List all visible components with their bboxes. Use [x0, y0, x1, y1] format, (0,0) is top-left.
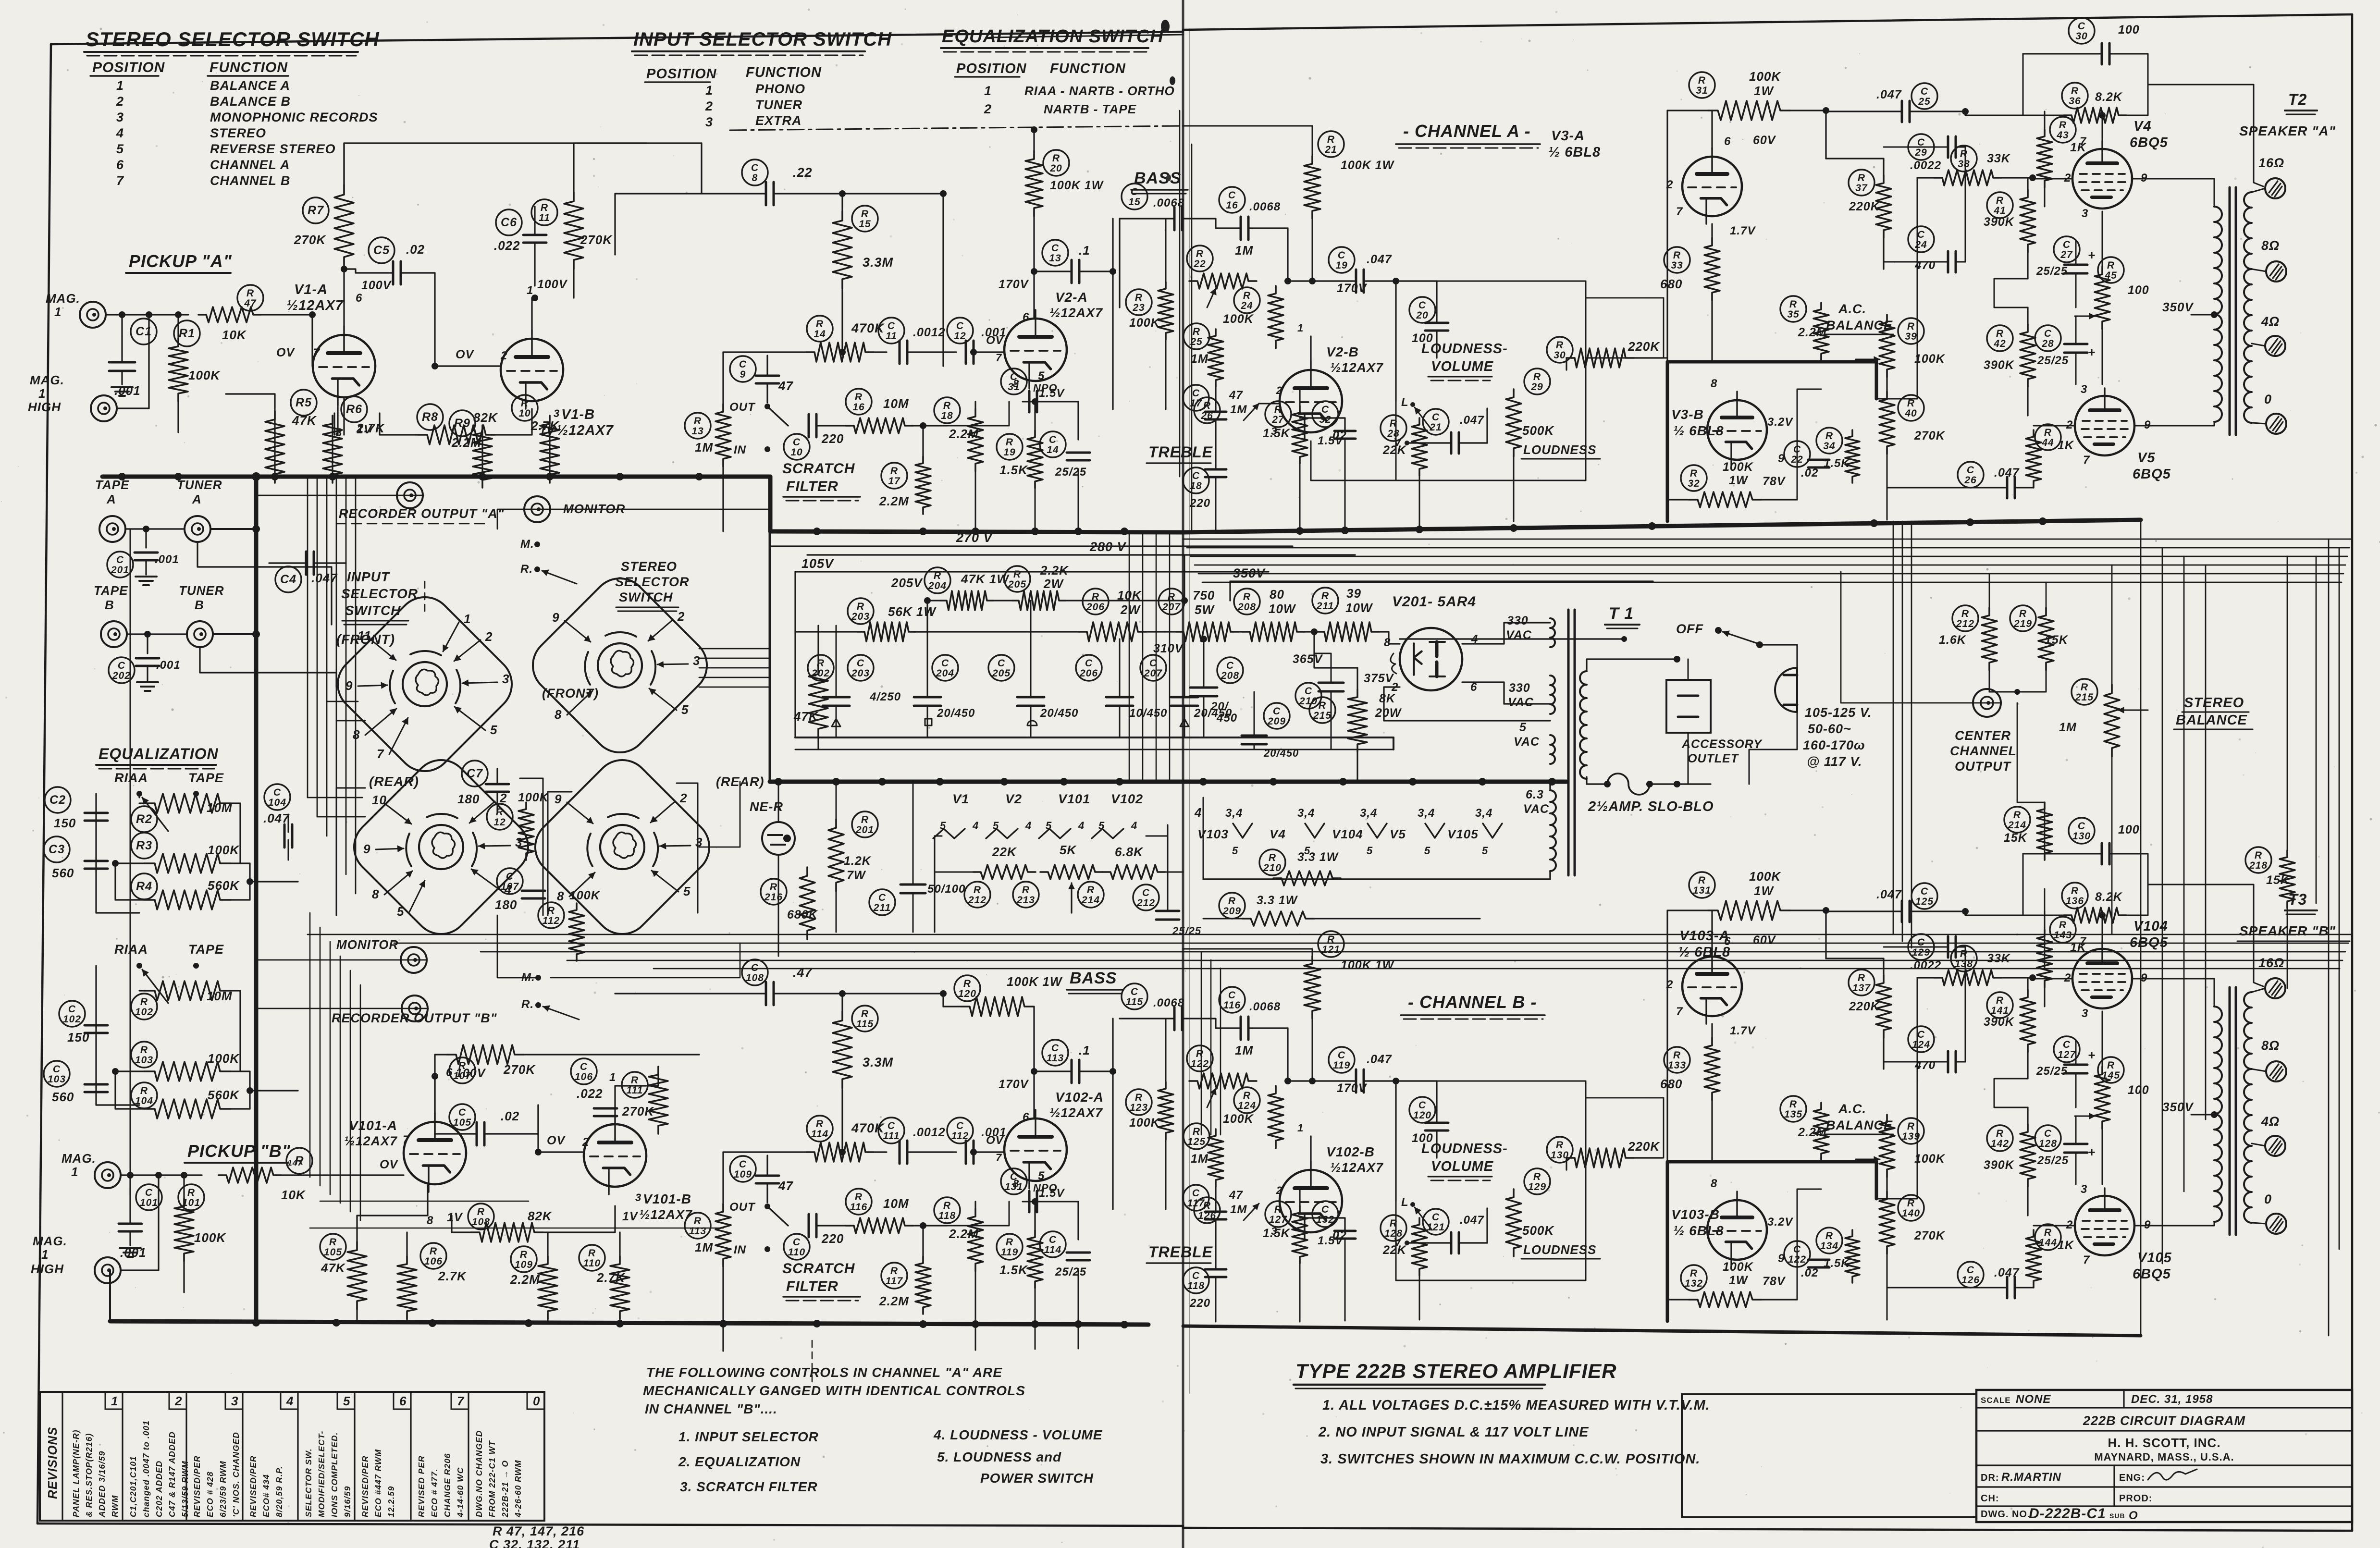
- svg-text:C: C: [68, 1004, 76, 1015]
- svg-text:C: C: [888, 320, 895, 332]
- svg-text:R: R: [1022, 885, 1030, 896]
- svg-text:115: 115: [1126, 996, 1143, 1007]
- resistor R130 220K: [1547, 1137, 1573, 1163]
- jack TAPE B: [101, 621, 127, 647]
- svg-text:V103-A: V103-A: [1679, 928, 1729, 944]
- revisions table frame: [40, 1392, 544, 1521]
- svg-text:160-170ω: 160-170ω: [1803, 738, 1865, 752]
- svg-text:CHANNEL B: CHANNEL B: [210, 173, 291, 188]
- svg-text:TAPE: TAPE: [188, 942, 224, 957]
- svg-text:132: 132: [1316, 1214, 1334, 1225]
- svg-text:5: 5: [116, 142, 124, 156]
- filter capacitor C205 20/450: [988, 655, 1014, 681]
- svg-text:100: 100: [2128, 283, 2149, 297]
- svg-text:8: 8: [1711, 377, 1717, 390]
- svg-text:C: C: [1967, 465, 1974, 476]
- svg-text:BALANCE: BALANCE: [2176, 713, 2247, 728]
- wire monitor jack to fold: [551, 509, 770, 510]
- svg-text:.0068: .0068: [1153, 996, 1184, 1009]
- svg-text:L: L: [1401, 1196, 1409, 1209]
- resistor R14 470K: [807, 316, 833, 342]
- heater wires lower: [934, 836, 936, 872]
- resistor R16 10M: [846, 389, 872, 415]
- resistor R215 8K 20W: [1309, 697, 1335, 723]
- svg-text:V103: V103: [1197, 827, 1229, 841]
- svg-text:105: 105: [324, 1247, 342, 1258]
- resistor R4 560K: [131, 873, 157, 899]
- svg-text:SELECTOR: SELECTOR: [615, 575, 690, 589]
- svg-text:R: R: [1193, 1126, 1200, 1137]
- plate wire V1-A up to R7: [343, 269, 345, 326]
- svg-text:100K: 100K: [1723, 460, 1754, 474]
- resistor R104 560K: [131, 1082, 157, 1108]
- svg-text:100K: 100K: [1914, 1152, 1946, 1166]
- svg-text:20/450: 20/450: [1040, 707, 1078, 720]
- svg-text:1W: 1W: [1729, 474, 1749, 487]
- svg-text:R: R: [1533, 371, 1541, 382]
- svg-text:IN: IN: [734, 443, 746, 456]
- svg-text:220: 220: [821, 1231, 844, 1246]
- tube V1-B half 12AX7: [501, 339, 563, 401]
- svg-text:1. INPUT SELECTOR: 1. INPUT SELECTOR: [678, 1429, 819, 1444]
- svg-text:R2: R2: [136, 812, 152, 826]
- resistor R117 2.2M: [881, 1263, 907, 1289]
- svg-text:220K: 220K: [1849, 1000, 1880, 1013]
- svg-text:18: 18: [941, 410, 953, 421]
- svg-text:2: 2: [1276, 1184, 1282, 1196]
- transformer T2 secondary: [2244, 192, 2252, 423]
- svg-text:½12AX7: ½12AX7: [556, 423, 614, 438]
- resistor R7 270K: [303, 197, 329, 223]
- jack TAPE A: [99, 516, 125, 542]
- svg-text:R: R: [2013, 810, 2021, 821]
- pot R139 100K: [1898, 1118, 1924, 1144]
- svg-text:.0012: .0012: [913, 326, 946, 339]
- wires cathode cluster B: [357, 1216, 428, 1242]
- svg-text:1M: 1M: [695, 440, 713, 455]
- svg-text:REVERSE STEREO: REVERSE STEREO: [210, 142, 336, 156]
- svg-text:6BQ5: 6BQ5: [2133, 1266, 2171, 1282]
- capacitor C21 .047: [1423, 409, 1449, 435]
- svg-text:28: 28: [2041, 338, 2054, 349]
- svg-text:220K: 220K: [1849, 200, 1880, 213]
- svg-text:2: 2: [582, 1136, 589, 1149]
- resistor R147 10K: [286, 1148, 312, 1174]
- svg-text:.02: .02: [501, 1109, 519, 1123]
- svg-text:134: 134: [1820, 1241, 1838, 1252]
- svg-text:.001: .001: [155, 553, 179, 566]
- svg-text:R4: R4: [136, 880, 152, 893]
- svg-text:C: C: [1051, 1043, 1059, 1054]
- svg-text:OV: OV: [276, 346, 295, 359]
- svg-text:100K: 100K: [208, 843, 240, 857]
- capacitor C107 180: [497, 868, 523, 894]
- capacitor C20 100: [1409, 297, 1435, 323]
- svg-text:3: 3: [705, 115, 713, 129]
- svg-text:114: 114: [811, 1129, 828, 1140]
- svg-text:C: C: [1967, 1265, 1974, 1276]
- svg-text:POWER SWITCH: POWER SWITCH: [980, 1471, 1094, 1486]
- resistor R24 100K: [1234, 287, 1260, 313]
- svg-text:4-26-60 RWM: 4-26-60 RWM: [513, 1460, 523, 1518]
- svg-text:FROM 222-C1 WT: FROM 222-C1 WT: [487, 1440, 497, 1517]
- svg-text:MONOPHONIC RECORDS: MONOPHONIC RECORDS: [210, 110, 378, 124]
- svg-text:39: 39: [1905, 331, 1917, 342]
- revisions column 8: [543, 1392, 545, 1521]
- svg-text:2: 2: [705, 99, 713, 113]
- resistor R111 270K: [622, 1072, 648, 1098]
- svg-text:SCALE: SCALE: [1981, 1396, 2011, 1405]
- svg-text:C7: C7: [467, 767, 483, 780]
- svg-text:C: C: [458, 1107, 466, 1118]
- svg-text:214: 214: [1081, 895, 1100, 906]
- capacitor C7 180: [462, 761, 488, 786]
- svg-text:V101-B: V101-B: [643, 1192, 691, 1206]
- svg-text:C: C: [1192, 1188, 1200, 1199]
- svg-text:POSITION: POSITION: [92, 60, 165, 75]
- svg-text:1: 1: [41, 1247, 49, 1262]
- svg-text:C: C: [1051, 243, 1059, 254]
- svg-text:100K: 100K: [1129, 1116, 1160, 1130]
- rotary wafer input selector front: [326, 586, 523, 783]
- svg-text:R: R: [1006, 1237, 1013, 1248]
- power supply lower rail: [795, 737, 1393, 738]
- svg-text:LOUDNESS: LOUDNESS: [1523, 1242, 1596, 1257]
- svg-text:3: 3: [502, 672, 509, 686]
- capacitor C111 .0012: [878, 1118, 904, 1143]
- svg-text:219: 219: [2013, 618, 2032, 629]
- svg-text:5: 5: [343, 1394, 350, 1408]
- rotary wafer input selector rear: [343, 749, 540, 946]
- plate R120 100K 1W: [954, 975, 980, 1001]
- svg-text:25: 25: [1918, 96, 1930, 107]
- svg-text:3. SCRATCH FILTER: 3. SCRATCH FILTER: [680, 1479, 818, 1494]
- svg-text:V2-A: V2-A: [1055, 290, 1088, 305]
- svg-text:1: 1: [984, 84, 992, 98]
- wire 280V rail: [807, 554, 1355, 555]
- svg-text:7: 7: [313, 346, 321, 359]
- svg-text:R: R: [1135, 1092, 1143, 1103]
- svg-text:11: 11: [539, 212, 550, 223]
- svg-text:C: C: [751, 162, 759, 173]
- revisions column 3: [242, 1392, 243, 1521]
- svg-text:C47 & R147 ADDED: C47 & R147 ADDED: [167, 1431, 177, 1517]
- svg-text:MAG.: MAG.: [62, 1151, 96, 1166]
- svg-text:116: 116: [1223, 1000, 1241, 1011]
- svg-text:3,4: 3,4: [1475, 807, 1492, 820]
- svg-text:100K: 100K: [194, 1230, 226, 1245]
- svg-text:2: 2: [679, 791, 687, 805]
- svg-text:R: R: [2255, 850, 2262, 861]
- capacitor C108: [742, 959, 768, 985]
- svg-text:207: 207: [1144, 668, 1162, 679]
- svg-text:7: 7: [996, 1152, 1002, 1164]
- svg-text:V1-B: V1-B: [561, 407, 595, 422]
- capacitor C127 25/25: [2054, 1036, 2080, 1062]
- svg-text:.0012: .0012: [913, 1126, 946, 1139]
- svg-text:4: 4: [1025, 820, 1032, 832]
- transformer T3 primary: [2214, 1007, 2222, 1222]
- svg-text:VAC: VAC: [1523, 802, 1549, 816]
- resistor R119 1.5K: [997, 1234, 1023, 1260]
- svg-text:209: 209: [1222, 906, 1241, 917]
- grid wire V1-B: [435, 365, 501, 367]
- wire 270V rail: [770, 545, 1293, 547]
- svg-text:8: 8: [1384, 636, 1391, 649]
- svg-text:.047: .047: [1460, 1214, 1484, 1227]
- capacitor C18 220: [1183, 467, 1209, 493]
- capacitor C113 .1: [1042, 1040, 1068, 1066]
- svg-text:R: R: [2081, 682, 2088, 693]
- svg-text:V4: V4: [1270, 827, 1286, 841]
- vertical feeders right edge: [2140, 539, 2142, 1336]
- ink smudges near fold top: [1161, 20, 1170, 33]
- resistor R18 2.2M: [934, 397, 960, 423]
- jack RECORDER OUTPUT B: [402, 995, 428, 1021]
- wire verticals fold crossing lower: [1201, 952, 1202, 1135]
- svg-text:102: 102: [63, 1014, 81, 1025]
- resistor R17 2.2M: [881, 463, 907, 489]
- wire tone to V2-B grid: [1259, 403, 1280, 405]
- svg-text:120: 120: [958, 988, 976, 999]
- jack TUNER A: [185, 516, 210, 542]
- svg-text:EQUALIZATION: EQUALIZATION: [99, 745, 219, 762]
- resistor R140 270K: [1898, 1195, 1924, 1221]
- svg-text:209: 209: [1267, 716, 1286, 727]
- svg-text:OUTPUT: OUTPUT: [1955, 759, 2012, 774]
- svg-text:R3: R3: [136, 839, 152, 852]
- svg-text:31: 31: [1696, 85, 1708, 96]
- svg-text:C: C: [956, 1120, 964, 1131]
- capacitor C201 .001: [126, 528, 146, 529]
- svg-text:8: 8: [1013, 1178, 1019, 1190]
- wire grid to V1-A: [312, 315, 313, 366]
- jack MAG 1 (pickup B): [95, 1162, 121, 1188]
- svg-text:113: 113: [1047, 1053, 1064, 1064]
- tube V104 6BQ5: [2072, 949, 2132, 1008]
- feedback wire to 16 ohm terminal B: [2148, 885, 2263, 986]
- border frame right sheet: [1183, 14, 2352, 30]
- svg-text:IN: IN: [734, 1243, 746, 1256]
- capacitor C09 47: [730, 356, 756, 382]
- transformer T3 secondary: [2244, 992, 2252, 1223]
- svg-text:25/25: 25/25: [1172, 925, 1201, 937]
- svg-text:78V: 78V: [1763, 1275, 1786, 1288]
- svg-text:R5: R5: [296, 396, 312, 409]
- resistor R27 1.5K: [1265, 401, 1291, 427]
- filter capacitor C206 10/450: [1076, 655, 1102, 681]
- resistor R31 100K 1W: [1689, 72, 1715, 98]
- svg-text:7: 7: [1676, 1005, 1683, 1018]
- svg-text:8Ω: 8Ω: [2261, 238, 2280, 253]
- svg-text:OV: OV: [986, 334, 1004, 347]
- pot R22 1M: [1187, 246, 1213, 271]
- border frame left sheet: [51, 32, 1183, 44]
- svg-text:H. H. SCOTT, INC.: H. H. SCOTT, INC.: [2108, 1436, 2220, 1450]
- resistor R143 1K: [2050, 917, 2076, 943]
- svg-text:C: C: [1049, 1234, 1057, 1245]
- svg-text:R: R: [1135, 292, 1143, 303]
- resistor R40 270K: [1898, 395, 1924, 421]
- jack MAG 1 HIGH (pickup A): [91, 395, 117, 421]
- svg-text:16: 16: [1226, 200, 1238, 211]
- svg-text:.0022: .0022: [1910, 959, 1941, 972]
- svg-text:560: 560: [52, 866, 74, 880]
- wire B+ rail to R21: [1183, 125, 1312, 127]
- box around input selector rear wafer: [336, 788, 365, 915]
- svg-text:.0068: .0068: [1249, 1000, 1281, 1013]
- capacitor C32 .02: [1312, 401, 1338, 427]
- jack MAG 1 HIGH (pickup B): [95, 1257, 121, 1283]
- svg-text:120: 120: [1413, 1110, 1431, 1121]
- capacitor C212 25/25: [1133, 885, 1159, 910]
- svg-text:SELECTOR: SELECTOR: [341, 586, 418, 601]
- svg-text:A: A: [106, 492, 116, 506]
- svg-text:680: 680: [1660, 1077, 1682, 1091]
- svg-text:R: R: [855, 1192, 863, 1203]
- accessory outlet: [1666, 680, 1711, 733]
- svg-text:3.3M: 3.3M: [863, 255, 893, 270]
- svg-text:39: 39: [1346, 586, 1361, 601]
- svg-text:NARTB - TAPE: NARTB - TAPE: [1044, 102, 1136, 116]
- svg-text:OV: OV: [456, 348, 474, 361]
- svg-text:100K: 100K: [1129, 316, 1160, 330]
- svg-text:5: 5: [1482, 845, 1488, 857]
- ground bus channel B right sheet: [1183, 1326, 2141, 1336]
- svg-text:3: 3: [2082, 207, 2088, 220]
- svg-text:OFF: OFF: [1676, 622, 1703, 636]
- svg-text:.1: .1: [1079, 1043, 1090, 1057]
- svg-text:C3: C3: [49, 843, 65, 856]
- svg-text:122: 122: [1191, 1058, 1209, 1069]
- svg-text:15: 15: [1128, 197, 1140, 208]
- svg-text:R: R: [2107, 260, 2115, 271]
- svg-text:CHANNEL A: CHANNEL A: [210, 158, 290, 172]
- svg-text:& RES.STOP(R216): & RES.STOP(R216): [84, 1433, 94, 1517]
- svg-text:.1: .1: [1079, 243, 1090, 258]
- svg-text:POSITION: POSITION: [646, 66, 717, 82]
- wire V1-A cathode: [337, 405, 338, 435]
- svg-text:C: C: [2078, 821, 2085, 832]
- resistor R137 220K: [1849, 970, 1874, 995]
- svg-text:10K: 10K: [222, 328, 247, 342]
- capacitor C132 .02: [1312, 1201, 1338, 1227]
- tube V3-A half 6BL8: [1682, 157, 1742, 216]
- svg-text:2. EQUALIZATION: 2. EQUALIZATION: [678, 1454, 801, 1469]
- resistor R42 390K: [1987, 325, 2013, 351]
- svg-text:100V: 100V: [361, 279, 392, 292]
- pot R26 1M: [1194, 397, 1220, 423]
- svg-text:121: 121: [1427, 1222, 1445, 1233]
- svg-text:R: R: [974, 885, 981, 896]
- capacitor C114 25/25: [1040, 1231, 1066, 1257]
- jack RECORDER OUTPUT A: [397, 482, 423, 508]
- svg-text:4/250: 4/250: [869, 690, 901, 703]
- svg-text:103: 103: [48, 1074, 66, 1085]
- svg-text:11: 11: [358, 628, 371, 643]
- resistor R115 3.3M: [852, 1006, 878, 1032]
- transformer T3 core: [2229, 987, 2231, 1235]
- wires scratch cluster: [922, 1226, 924, 1256]
- svg-text:47: 47: [778, 1179, 793, 1193]
- resistor R2 10M: [131, 806, 157, 832]
- svg-text:2. NO INPUT SIGNAL & 117: 2. NO INPUT SIGNAL & 117 VOLT LINE: [1318, 1425, 1589, 1440]
- svg-text:7: 7: [377, 747, 384, 761]
- svg-text:C: C: [1192, 388, 1200, 399]
- svg-text:7W: 7W: [847, 869, 866, 882]
- capacitor C12 .001: [947, 318, 973, 344]
- svg-text:C: C: [145, 1187, 153, 1198]
- svg-text:R: R: [1960, 948, 1968, 959]
- cross wire bundle lower: [308, 934, 2351, 935]
- tube V4 6BQ5: [2072, 149, 2132, 209]
- jack CENTER CHANNEL OUTPUT: [1973, 689, 2001, 717]
- svg-text:100K: 100K: [569, 889, 601, 902]
- fuse 2.5A slo-blo: [1607, 774, 1650, 795]
- svg-text:32: 32: [1319, 414, 1331, 425]
- heavy box channel B output: [1667, 1160, 1876, 1164]
- svg-text:.02: .02: [406, 242, 425, 257]
- svg-text:C: C: [739, 359, 747, 370]
- wire C104 path: [288, 814, 289, 832]
- svg-text:RWM: RWM: [110, 1495, 120, 1517]
- svg-text:C: C: [1228, 190, 1236, 201]
- svg-text:HIGH: HIGH: [31, 1262, 64, 1276]
- svg-text:R: R: [943, 1200, 951, 1211]
- svg-text:60V: 60V: [1753, 934, 1776, 947]
- svg-text:C: C: [1273, 706, 1281, 717]
- revisions column 7: [468, 1392, 469, 1521]
- svg-text:MONITOR: MONITOR: [336, 937, 398, 952]
- svg-text:4: 4: [1194, 805, 1202, 820]
- svg-text:5K: 5K: [1060, 843, 1077, 857]
- svg-text:20: 20: [1049, 163, 1062, 174]
- svg-text:7: 7: [2080, 135, 2087, 148]
- svg-text:'C' NOS. CHANGED: 'C' NOS. CHANGED: [231, 1432, 241, 1517]
- resistor R202 47K: [808, 655, 834, 681]
- svg-text:C: C: [1338, 250, 1345, 261]
- grid wire V101-B: [538, 1151, 584, 1153]
- resistor R208 80 10W: [1234, 589, 1260, 614]
- svg-text:DWG.NO CHANGED: DWG.NO CHANGED: [474, 1430, 484, 1517]
- svg-text:MODIFIED/SELECT-: MODIFIED/SELECT-: [317, 1431, 326, 1517]
- svg-text:105-125 V.: 105-125 V.: [1805, 705, 1872, 720]
- svg-text:1M: 1M: [2059, 721, 2077, 734]
- svg-text:C: C: [1917, 1029, 1925, 1040]
- resistor R127 1.5K: [1265, 1201, 1291, 1227]
- resistor R116 10M: [846, 1189, 872, 1215]
- rotary wafer stereo selector rear: [524, 749, 721, 946]
- resistor R13 1M: [685, 413, 711, 439]
- svg-text:R: R: [2059, 920, 2067, 931]
- svg-text:23: 23: [1132, 302, 1145, 313]
- capacitor C22 .02: [1784, 441, 1810, 467]
- svg-text:125: 125: [1915, 896, 1934, 907]
- svg-text:390K: 390K: [1984, 1158, 2015, 1172]
- capacitor C1 .001: [131, 319, 157, 344]
- svg-text:180: 180: [495, 897, 517, 912]
- svg-text:R: R: [588, 1248, 596, 1259]
- wire bundle stereo selector right side: [699, 648, 770, 650]
- svg-text:V4: V4: [2133, 119, 2151, 134]
- svg-text:136: 136: [2066, 896, 2084, 907]
- ground bus vertical main: [254, 477, 259, 1321]
- svg-text:106: 106: [424, 1256, 443, 1267]
- resistor R210 3.3 1W: [1259, 849, 1285, 875]
- svg-text:STEREO SELECTOR SWITCH: STEREO SELECTOR SWITCH: [86, 28, 380, 50]
- svg-text:T 1: T 1: [1609, 604, 1634, 623]
- pot R129 500K loudness: [1524, 1168, 1550, 1194]
